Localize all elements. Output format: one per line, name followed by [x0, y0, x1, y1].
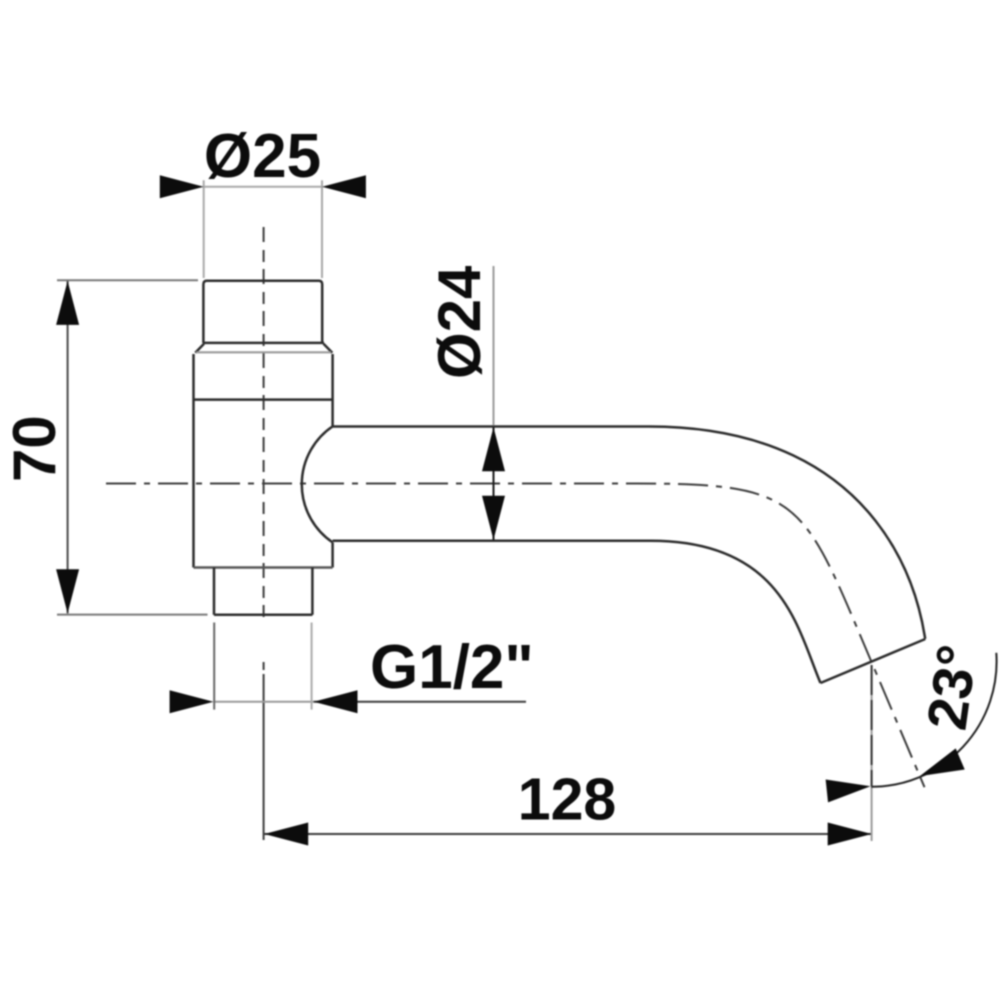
svg-text:Ø25: Ø25: [204, 122, 321, 191]
svg-text:128: 128: [518, 767, 616, 833]
svg-text:Ø24: Ø24: [426, 265, 493, 379]
svg-text:G1/2": G1/2": [370, 633, 534, 702]
svg-text:23°: 23°: [915, 641, 989, 734]
svg-text:70: 70: [1, 415, 68, 482]
